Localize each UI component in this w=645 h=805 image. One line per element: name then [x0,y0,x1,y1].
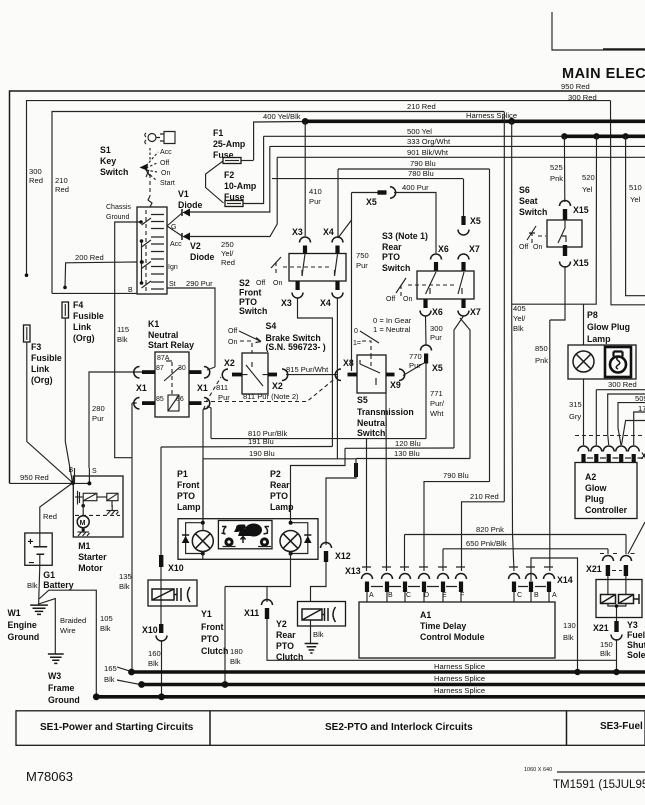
svg-text:P1: P1 [177,469,188,479]
S2 toggle [271,257,281,268]
starter solenoid coil left [75,491,97,505]
svg-text:770: 770 [409,352,422,361]
wire V1 to 333 [189,146,270,212]
wire 180 Blk from 190 Blu [224,587,226,685]
dot P2 top [289,521,293,525]
motor M circle [77,516,89,528]
svg-text:P2: P2 [270,469,281,479]
P2 diode vertical [304,536,312,543]
svg-text:Blk: Blk [600,649,611,658]
dot 200 Red at switch [140,260,144,264]
wire S6 down 850 Pnk jog [550,266,565,320]
svg-text:G1: G1 [43,570,55,580]
svg-text:X15: X15 [573,205,589,215]
svg-text:Pur: Pur [92,414,104,423]
svg-text:333 Org/Wht: 333 Org/Wht [407,137,451,146]
X7 arc bottom [458,311,469,317]
svg-text:TM1591 (15JUL95): TM1591 (15JUL95) [553,779,645,791]
wire 950 Red / outer frame [10,91,645,483]
svg-text:Start Relay: Start Relay [148,340,194,350]
S2 bar bottom X4 [335,281,339,290]
S1 key switch body box [137,207,167,294]
Y2 clutch box [298,602,346,627]
X4 arc bottom [332,293,343,299]
svg-text:200 Red: 200 Red [75,253,104,262]
Y3 box [596,580,642,618]
svg-text:Off: Off [386,296,395,303]
K1 relay box [155,352,189,417]
svg-text:Harness Splice: Harness Splice [434,686,485,695]
svg-text:F2: F2 [224,170,234,180]
fuse F2 [225,201,243,207]
svg-text:120 Blu: 120 Blu [395,439,421,448]
svg-text:K1: K1 [148,319,159,329]
svg-text:PTO: PTO [201,634,219,644]
svg-text:Yel: Yel [582,185,593,194]
Y1 clutch box [148,580,197,606]
X4 arc top [332,237,343,242]
svg-text:X8: X8 [343,358,354,368]
wire 150 Blk [616,639,618,672]
wire 525 Pnk drop [563,136,565,202]
X14 pin stubs [514,592,549,602]
P1 lamp bottom stub [202,552,204,560]
wire X3 bottom to 191 [298,298,333,447]
svg-text:Pnk: Pnk [550,174,563,183]
wire 210 Red lower [462,502,505,571]
A1 pin letters A-F [369,592,464,599]
dot chassis ground [139,220,143,224]
X15 arc bottom [560,262,571,268]
wire X7 cross left to 120 Blu [454,316,464,448]
S6 bar bottom [563,245,567,256]
S6 box [547,220,582,247]
svg-text:Acc: Acc [170,241,182,248]
wire G fork to diodes [167,213,182,236]
wire 780 Blu top [272,178,463,180]
wire 820 Pnk drop to X21 right [625,535,627,555]
X14 pin bar dashes [518,586,546,588]
svg-text:X7: X7 [470,307,481,317]
svg-text:W1: W1 [8,608,21,618]
svg-text:950 Red: 950 Red [20,473,49,482]
svg-text:210 Red: 210 Red [407,102,436,111]
svg-text:850: 850 [535,344,548,353]
svg-text:X3: X3 [292,227,303,237]
svg-text:X10: X10 [142,625,158,635]
svg-text:B: B [534,592,539,599]
svg-text:Start: Start [160,180,175,187]
svg-text:Switch: Switch [519,207,547,217]
svg-text:Shut: Shut [627,640,645,650]
X21 bar dashes [612,570,622,572]
svg-text:Pur: Pur [309,197,321,206]
svg-text:Harness Splice: Harness Splice [434,674,485,683]
wire 520 Yel drop [584,136,597,304]
wire 500 Yel [264,135,564,137]
P8 box [568,345,636,379]
svg-text:C: C [406,592,411,599]
svg-text:Pur: Pur [430,333,442,342]
X8 arc [335,369,341,381]
wire 650 Pnk/Blk [443,548,608,550]
Y3 solenoid left [601,595,616,604]
svg-text:Switch: Switch [357,428,385,438]
diode V2 [183,233,191,241]
svg-text:Clutch: Clutch [201,646,228,656]
X5 arc right [458,230,469,236]
svg-text:X5: X5 [366,197,377,207]
svg-text:F3: F3 [31,342,41,352]
fuse F1 [223,158,241,164]
wire K1-86 to 190 riser [203,406,205,521]
dot bus1 start [128,669,135,676]
svg-text:Front: Front [177,480,200,490]
svg-text:MAIN ELECTRICAL S: MAIN ELECTRICAL S [562,66,645,82]
svg-text:X15: X15 [573,258,589,268]
S3 dashed link [408,284,456,286]
junction dot 400/405 [508,118,515,125]
svg-text:Glow Plug: Glow Plug [587,322,630,332]
wire 191 Blu [161,446,332,449]
wire X10 drop from 191 [160,447,162,555]
wire 300 Red riser right [611,101,645,305]
wire P8 down 315 Gry [583,379,585,445]
wire edge feed 3 [634,412,645,445]
svg-text:280: 280 [92,404,105,413]
svg-text:150: 150 [600,640,613,649]
wire 160 Blk [161,640,163,697]
key switch rotary dashes [146,148,158,181]
F3 fusible link [24,325,31,342]
svg-text:Control Module: Control Module [420,632,485,642]
svg-text:A: A [369,592,374,599]
svg-text:Front: Front [201,622,224,632]
wire F4 lower [65,318,72,483]
P1 lamp circle [192,531,213,552]
svg-text:X4: X4 [320,298,331,308]
section band box [16,711,645,746]
Y3 junction [608,604,626,622]
X15 arc top [560,201,571,206]
svg-text:Rear: Rear [382,242,402,252]
svg-text:Fusible: Fusible [31,353,62,363]
svg-text:X: X [641,451,645,461]
harness bus 2 [142,683,645,687]
svg-text:C: C [517,592,522,599]
svg-text:Pur: Pur [409,361,421,370]
svg-text:Yel/: Yel/ [513,314,526,323]
svg-text:PTO: PTO [270,491,288,501]
svg-text:B: B [388,592,393,599]
svg-text:−: − [29,558,35,569]
svg-text:105: 105 [100,614,113,623]
wire 790 Blu drop to X4 top [337,169,339,238]
wire 750 Pur to X8 [351,220,353,371]
svg-text:Blk: Blk [313,630,324,639]
wire 790 Blu riser [489,169,491,482]
P1 bracket loop with diode [186,523,203,554]
wire F3 lower [27,342,73,483]
wire 820 Pnk drop to pin C [404,535,406,572]
svg-text:S1: S1 [100,145,111,155]
svg-text:520: 520 [582,173,595,182]
dot 130 Blk on bus [574,669,580,675]
svg-text:X11: X11 [244,608,259,618]
S2 bar bottom X3 [296,281,300,290]
X1 arc left top [134,367,140,379]
svg-text:On: On [273,280,282,287]
Y3 stubs into box [608,576,626,595]
svg-text:Blk: Blk [117,335,128,344]
wire 780 Blu drop to X5 [463,179,465,216]
wire 815 Pur/Wht [286,374,337,376]
G1 battery box [25,533,52,565]
svg-text:A: A [552,592,557,599]
starter solenoid contact right [97,493,118,507]
svg-text:525: 525 [550,163,563,172]
wire 650 drop to pin E [442,549,444,571]
svg-text:Seat: Seat [519,196,538,206]
wire 810 drop to A1 pin A [366,439,368,571]
P8 lamp circle [573,351,594,372]
dot F4 junction [63,286,67,290]
wire edge feed 2 [618,403,645,445]
svg-text:X7: X7 [469,244,480,254]
X1 arc left bottom [134,398,140,410]
svg-text:S6: S6 [519,185,530,195]
wire 210 Red frame loop [52,112,504,294]
svg-text:771: 771 [430,389,443,398]
A1 box [359,602,555,658]
wire 901 Blk/Wht [277,156,645,158]
wire 820 Pnk [405,534,627,536]
svg-text:Off: Off [519,244,528,251]
svg-text:A1: A1 [420,610,431,620]
wire 300 Red frame loop [27,101,611,276]
svg-text:F4: F4 [73,300,83,310]
svg-text:Gry: Gry [569,412,581,421]
X2 bar right [268,373,277,377]
svg-text:Pur/: Pur/ [430,399,445,408]
X12 bar [324,551,328,562]
svg-text:950 Red: 950 Red [561,82,590,91]
svg-text:400 Pur: 400 Pur [402,183,429,192]
svg-text:SE3-Fuel S: SE3-Fuel S [600,721,645,732]
P1 diode vertical [182,536,190,543]
svg-text:Frame: Frame [48,683,75,693]
svg-text:130: 130 [563,621,576,630]
motor ground [78,528,90,536]
A1 pin stubs left [367,592,461,602]
svg-text:Ground: Ground [106,214,129,221]
key switch contact ladder [151,215,164,290]
dot P1 bottom [201,552,205,556]
K1 terminal bar 30 [189,370,202,374]
svg-text:10-Amp: 10-Amp [224,181,257,191]
wire 811 Pur (Note 2) dashed [204,376,338,402]
wire 190 Blu [203,458,356,460]
W3 ground symbol [48,654,64,663]
A2 pin bars [581,454,635,463]
M1 starter box [73,476,123,537]
svg-text:509: 509 [635,394,645,403]
P2 lamp circle [280,531,301,552]
wire edge feed 4 cross [622,421,645,446]
dot bus3 start [93,693,100,700]
svg-text:Blk: Blk [119,582,130,591]
svg-text:1060 X 640: 1060 X 640 [524,767,552,773]
svg-text:Starter: Starter [78,552,107,562]
svg-text:W3: W3 [48,671,61,681]
wire 790 Blu lower [424,482,490,571]
lamp assembly box [178,519,318,560]
key switch wipers [142,218,152,288]
svg-text:Red: Red [43,512,57,521]
svg-text:Off: Off [256,280,265,287]
band divider 2 [566,711,568,746]
X5 bar right [461,216,465,225]
svg-text:25-Amp: 25-Amp [213,139,246,149]
wire F1-F2 left bracket [206,161,224,203]
svg-text:405: 405 [513,304,526,313]
F4 fusible link [62,302,69,318]
P2 bracket loop with diode [291,523,308,554]
svg-text:Harness Splice: Harness Splice [466,111,517,120]
svg-text:M1: M1 [78,541,90,551]
S4 contact [246,365,263,386]
svg-text:(S.N. 596723- ): (S.N. 596723- ) [266,342,326,352]
S2 contacts [302,254,338,276]
svg-text:Yel/: Yel/ [221,249,234,258]
svg-text:Red: Red [221,258,235,267]
svg-text:790 Blu: 790 Blu [443,471,469,480]
wire F1 right riser [241,160,254,162]
K1 87A stub [166,360,172,362]
svg-text:Rear: Rear [276,630,296,640]
S3 box [417,271,474,299]
X9 arc [399,369,405,381]
X21 arcs [603,556,614,562]
wire 410 Pur from 400 bus to X3 [304,121,306,236]
svg-text:Pur: Pur [218,393,230,402]
wire 300 Red right [596,389,645,391]
tractor icon [222,524,272,547]
wire V2 250 Yel/Red to 901 [189,157,277,236]
svg-text:300: 300 [430,324,443,333]
diode V1 [183,209,191,217]
S3 contacts [426,272,465,294]
svg-text:Engine: Engine [8,620,37,630]
svg-text:Controller: Controller [585,505,628,515]
band divider 1 [209,711,211,746]
svg-text:Switch: Switch [382,263,410,273]
svg-text:130 Blu: 130 Blu [394,449,420,458]
svg-text:410: 410 [309,187,322,196]
165 Blk leader lines [117,667,140,685]
svg-text:Yel: Yel [630,195,641,204]
wire battery to W1 [39,565,40,605]
wire F2 right riser to 500 Yel [243,136,264,203]
K1 coil [168,395,179,411]
svg-text:X13: X13 [345,566,361,576]
wire 400 Pur [394,193,436,254]
wire P8 feed from 405 [512,304,584,345]
wire X4 bottom to 190 [336,298,338,459]
X1 arc right bottom [204,398,210,410]
S6 toggle [527,226,536,240]
svg-text:Link: Link [31,364,49,374]
svg-text:Switch: Switch [100,167,128,177]
svg-text:815 Pur/Wht: 815 Pur/Wht [286,365,329,374]
svg-text:On: On [403,296,412,303]
svg-text:X4: X4 [323,227,334,237]
svg-text:190 Blu: 190 Blu [249,449,275,458]
dot P1 top [201,521,205,525]
wire 405 YelBlk riser [512,121,514,571]
wire 950 Red to junction [10,482,91,484]
svg-text:Lamp: Lamp [587,334,611,344]
svg-text:S5: S5 [357,395,368,405]
dot solenoid to motor [81,504,85,508]
svg-text:510: 510 [629,183,642,192]
wire Red to battery [40,483,73,533]
X11 bar [265,608,269,619]
svg-text:790 Blu: 790 Blu [410,159,436,168]
svg-text:85: 85 [156,396,164,403]
svg-text:X1: X1 [197,383,208,393]
splice dot 525 [561,133,567,139]
X11 arc [262,600,273,606]
K1 terminal bar 86 [189,401,202,405]
S6 contact [558,220,566,243]
wire St 290 Pur [167,288,215,367]
svg-text:Blk: Blk [230,657,241,666]
X7 bar top [461,262,465,271]
svg-text:Plug: Plug [585,494,604,504]
junction dot 400/410 [302,118,309,125]
wire braided to W3 [39,599,56,654]
svg-text:Pur: Pur [356,261,368,270]
P2 lamp bottom stub [290,552,292,560]
dashed link solenoid [75,514,120,516]
svg-text:Neutral: Neutral [357,418,387,428]
svg-text:Ground: Ground [8,632,40,642]
wire 120 Blu [345,447,454,449]
A1 pin bar dashes [371,586,457,588]
wire chassis ground 115 Blk [115,222,141,458]
svg-text:180: 180 [230,647,243,656]
X3 arc bottom [292,293,303,299]
svg-text:315: 315 [569,400,582,409]
Y2 ground symbol [305,644,319,654]
K1 terminal bar 87 [142,370,155,374]
svg-text:X21: X21 [593,623,609,633]
svg-text:165: 165 [104,664,117,673]
svg-text:1=: 1= [353,340,361,347]
dot 300 Red top of F3 [25,273,29,277]
svg-text:Rear: Rear [270,480,290,490]
S4 brake switch box [242,353,268,394]
wire 650 drop to X21 left [607,549,609,554]
dot S [87,481,91,485]
wire 510 Yel drop [626,136,645,295]
svg-text:Diode: Diode [190,252,215,262]
wire 811 Pur dashed X1 to X2 [206,377,221,402]
svg-text:SE2-PTO and Interlock Circuits: SE2-PTO and Interlock Circuits [325,722,473,733]
wire 333 Org/Wht [270,145,645,147]
svg-text:Key: Key [100,156,116,166]
